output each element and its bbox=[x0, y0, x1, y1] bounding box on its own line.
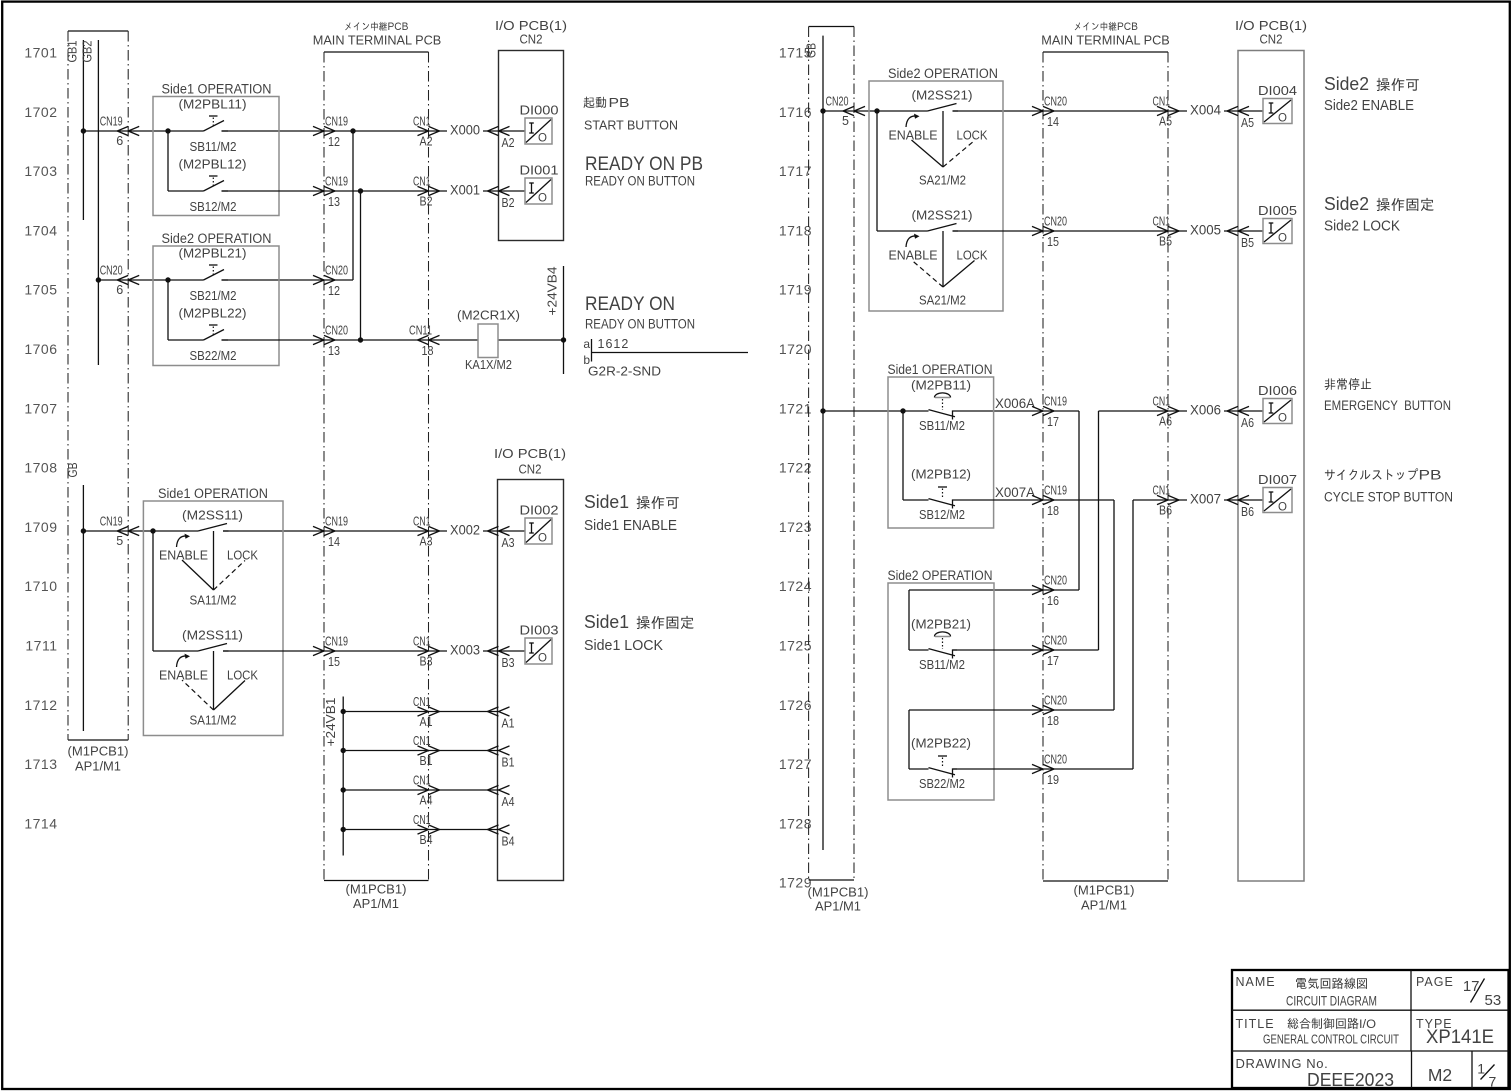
svg-text:LOCK: LOCK bbox=[227, 549, 259, 563]
connector CN20 pin 6 bbox=[100, 264, 140, 298]
svg-text:CN1: CN1 bbox=[1153, 395, 1171, 409]
relay coil M2CR1X KA1X/M2 bbox=[457, 308, 520, 373]
svg-text:B5: B5 bbox=[1159, 235, 1172, 249]
svg-text:1702: 1702 bbox=[24, 104, 57, 120]
svg-text:(M2SS11): (M2SS11) bbox=[182, 508, 243, 523]
svg-text:12: 12 bbox=[328, 135, 340, 149]
connector CN20 pin 16 bbox=[1032, 574, 1067, 609]
svg-text:1722: 1722 bbox=[779, 460, 812, 476]
push-button SB12/M2 (M2PB12) bbox=[911, 467, 971, 523]
svg-text:CN20: CN20 bbox=[1044, 634, 1067, 648]
svg-text:B1: B1 bbox=[502, 756, 515, 770]
svg-text:CN1: CN1 bbox=[1153, 484, 1171, 498]
svg-text:SB21/M2: SB21/M2 bbox=[190, 288, 237, 303]
svg-text:LOCK: LOCK bbox=[227, 669, 259, 683]
label side2 enable bbox=[1324, 74, 1419, 114]
power rail +24VB1 bbox=[324, 697, 346, 856]
svg-text:A4: A4 bbox=[502, 795, 515, 809]
connector CN2 pin A4 bbox=[488, 785, 515, 809]
svg-text:1725: 1725 bbox=[779, 638, 812, 654]
svg-text:+24VB1: +24VB1 bbox=[324, 697, 338, 746]
svg-text:TITLE: TITLE bbox=[1236, 1017, 1275, 1031]
connector CN20 pin 5 bbox=[826, 95, 866, 129]
connector CN19 pin 17 bbox=[1032, 395, 1067, 430]
node X004 bbox=[1187, 101, 1224, 118]
connector CN1 pin B2 bbox=[413, 175, 440, 209]
svg-text:B5: B5 bbox=[1241, 236, 1254, 250]
PCB box I/O PCB(1) CN2 lower left bbox=[494, 446, 566, 881]
svg-text:A6: A6 bbox=[1159, 415, 1172, 429]
input DI005 I/O cell bbox=[1258, 203, 1297, 245]
svg-text:Side2 OPERATION: Side2 OPERATION bbox=[888, 66, 998, 81]
svg-text:CN1: CN1 bbox=[413, 635, 431, 649]
svg-text:Side1 OPERATION: Side1 OPERATION bbox=[888, 362, 993, 377]
svg-text:CN19: CN19 bbox=[100, 115, 123, 129]
wire row 1702 start circuit bbox=[83, 128, 525, 280]
wire row 1725 side2 emergency bbox=[909, 649, 1099, 651]
svg-text:CN19: CN19 bbox=[1044, 484, 1067, 498]
svg-text:O: O bbox=[1278, 113, 1287, 125]
svg-text:A3: A3 bbox=[420, 535, 433, 549]
svg-text:READY ON BUTTON: READY ON BUTTON bbox=[585, 317, 695, 332]
svg-text:X001: X001 bbox=[450, 183, 480, 198]
svg-text:(M1PCB1): (M1PCB1) bbox=[346, 882, 407, 897]
svg-text:7: 7 bbox=[1489, 1074, 1497, 1090]
svg-text:CN19: CN19 bbox=[325, 115, 348, 129]
node X001 bbox=[447, 181, 483, 198]
svg-text:(M1PCB1): (M1PCB1) bbox=[68, 744, 129, 759]
svg-text:CN2: CN2 bbox=[520, 32, 543, 47]
svg-text:6: 6 bbox=[116, 283, 123, 297]
svg-text:A1: A1 bbox=[420, 715, 433, 729]
svg-text:18: 18 bbox=[1047, 504, 1059, 518]
wire row 1727 side2 cycle stop bbox=[909, 768, 1133, 770]
wire +24VB1 feed B1 bbox=[343, 750, 498, 752]
node X005 bbox=[1187, 221, 1224, 238]
connector CN2 pin A1 bbox=[488, 707, 515, 731]
operation box Side1 OPERATION upper bbox=[153, 82, 279, 216]
svg-text:SA21/M2: SA21/M2 bbox=[919, 173, 966, 188]
svg-text:GB: GB bbox=[66, 463, 80, 478]
svg-text:1705: 1705 bbox=[24, 282, 57, 298]
input DI001 I/O cell bbox=[520, 163, 559, 205]
operation box Side2 OPERATION right lower bbox=[888, 568, 995, 800]
svg-text:5: 5 bbox=[116, 534, 123, 548]
svg-text:Side2: Side2 bbox=[1324, 74, 1369, 94]
connector CN2 pin B6 bbox=[1227, 495, 1254, 519]
push-button SB21/M2 (M2PBL21) bbox=[179, 246, 247, 304]
selector switch SA21/M2 (M2SS21) lock bbox=[889, 208, 989, 308]
svg-text:CN19: CN19 bbox=[325, 515, 348, 529]
svg-text:G2R-2-SND: G2R-2-SND bbox=[588, 364, 661, 379]
svg-text:Side1 OPERATION: Side1 OPERATION bbox=[158, 486, 268, 501]
svg-text:CN20: CN20 bbox=[325, 264, 348, 278]
svg-text:CN1: CN1 bbox=[413, 515, 431, 529]
svg-text:CN1: CN1 bbox=[1153, 95, 1171, 109]
svg-text:Side1 ENABLE: Side1 ENABLE bbox=[584, 517, 677, 534]
input DI002 I/O cell bbox=[520, 503, 559, 545]
svg-text:CN1: CN1 bbox=[413, 813, 431, 827]
svg-text:B2: B2 bbox=[420, 195, 433, 209]
svg-text:CN20: CN20 bbox=[325, 324, 348, 338]
svg-text:O: O bbox=[538, 533, 547, 545]
svg-text:ENABLE: ENABLE bbox=[889, 129, 938, 143]
svg-text:CN1: CN1 bbox=[1153, 215, 1171, 229]
power rail +24VB4 bbox=[546, 266, 567, 374]
PCB boundary (M1PCB1) AP1/M1 left bbox=[68, 31, 129, 774]
wire row 1703 ready-on pb bbox=[168, 188, 525, 340]
svg-text:I/O: I/O bbox=[1359, 1017, 1376, 1031]
svg-text:(M2PBL22): (M2PBL22) bbox=[179, 306, 247, 321]
svg-text:AP1/M1: AP1/M1 bbox=[75, 759, 121, 774]
svg-text:1721: 1721 bbox=[779, 400, 812, 416]
PCB box I/O PCB(1) CN2 upper left bbox=[495, 18, 567, 241]
operation box Side2 OPERATION left bbox=[153, 231, 279, 366]
connector CN19 pin 15 bbox=[313, 635, 348, 670]
selector switch SA11/M2 (M2SS11) enable bbox=[159, 508, 259, 608]
svg-text:ENABLE: ENABLE bbox=[159, 669, 208, 683]
svg-text:A6: A6 bbox=[1241, 416, 1254, 430]
svg-text:READY ON: READY ON bbox=[585, 293, 675, 315]
svg-text:A5: A5 bbox=[1159, 115, 1172, 129]
svg-text:CYCLE STOP BUTTON: CYCLE STOP BUTTON bbox=[1324, 490, 1453, 505]
wire row 1726 link bbox=[909, 710, 1114, 769]
svg-text:1713: 1713 bbox=[24, 756, 57, 772]
svg-text:SB12/M2: SB12/M2 bbox=[190, 199, 237, 214]
svg-text:O: O bbox=[1278, 413, 1287, 425]
svg-text:16: 16 bbox=[1047, 594, 1059, 608]
svg-text:EMERGENCY BUTTON: EMERGENCY BUTTON bbox=[1324, 398, 1451, 413]
svg-text:O: O bbox=[538, 133, 547, 145]
svg-text:13: 13 bbox=[328, 195, 340, 209]
svg-text:ENABLE: ENABLE bbox=[159, 549, 208, 563]
input DI003 I/O cell bbox=[520, 623, 559, 665]
cross-reference a/b 1612 G2R-2-SND bbox=[583, 337, 748, 379]
svg-text:PB: PB bbox=[1419, 468, 1442, 483]
svg-text:1727: 1727 bbox=[779, 756, 812, 772]
svg-text:A5: A5 bbox=[1241, 116, 1254, 130]
svg-text:X007A: X007A bbox=[995, 485, 1035, 500]
connector CN2 pin A3 bbox=[488, 526, 515, 550]
connector CN20 pin 12 bbox=[313, 264, 348, 299]
svg-text:X000: X000 bbox=[450, 123, 480, 138]
connector CN20 pin 17 bbox=[1032, 634, 1067, 669]
svg-text:1703: 1703 bbox=[24, 163, 57, 179]
svg-text:Side1: Side1 bbox=[584, 612, 629, 632]
connector CN20 pin 18 bbox=[1032, 694, 1067, 729]
connector CN1 pin B6 bbox=[1153, 484, 1180, 518]
connector CN1 pin A3 bbox=[413, 515, 440, 549]
wire +24VB1 feed A1 bbox=[343, 711, 498, 713]
svg-text:SB22/M2: SB22/M2 bbox=[190, 348, 237, 363]
svg-text:CN20: CN20 bbox=[1044, 95, 1067, 109]
connector CN1 pin B5 bbox=[1153, 215, 1180, 249]
svg-text:B1: B1 bbox=[420, 754, 433, 768]
connector CN19 pin 12 bbox=[313, 115, 348, 150]
connector CN1 pin B3 bbox=[413, 635, 440, 669]
svg-text:SA11/M2: SA11/M2 bbox=[190, 593, 237, 608]
svg-text:1723: 1723 bbox=[779, 519, 812, 535]
svg-text:I/O PCB(1): I/O PCB(1) bbox=[494, 446, 566, 461]
connector CN1 pin B1 bbox=[413, 734, 440, 768]
connector CN2 pin B3 bbox=[488, 646, 515, 670]
connector CN2 pin A5 bbox=[1227, 106, 1254, 130]
bus GB right bbox=[805, 36, 826, 850]
label start button bbox=[584, 96, 679, 133]
wire row 1711 side1 lock bbox=[153, 650, 525, 652]
connector CN19 pin 18 bbox=[1032, 484, 1067, 519]
svg-text:1612: 1612 bbox=[598, 337, 630, 351]
svg-text:(M2SS21): (M2SS21) bbox=[912, 88, 973, 103]
wire +24VB1 feed A4 bbox=[343, 789, 498, 791]
svg-text:1711: 1711 bbox=[25, 638, 57, 654]
svg-text:Side2 OPERATION: Side2 OPERATION bbox=[888, 568, 993, 583]
svg-text:14: 14 bbox=[1047, 115, 1059, 129]
svg-text:DRAWING No.: DRAWING No. bbox=[1236, 1056, 1329, 1071]
svg-text:GB: GB bbox=[805, 43, 819, 58]
svg-text:1704: 1704 bbox=[24, 222, 57, 238]
svg-text:(M2CR1X): (M2CR1X) bbox=[457, 308, 520, 323]
svg-text:Side2 ENABLE: Side2 ENABLE bbox=[1324, 97, 1414, 114]
svg-text:1709: 1709 bbox=[24, 519, 57, 535]
label cycle stop button bbox=[1324, 468, 1453, 505]
svg-text:DI001: DI001 bbox=[520, 163, 559, 178]
push-button SB22/M2 (M2PB22) bbox=[911, 736, 971, 792]
svg-text:NAME: NAME bbox=[1236, 975, 1276, 989]
node X002 bbox=[447, 521, 483, 538]
svg-text:A2: A2 bbox=[502, 136, 515, 150]
connector CN1 pin B4 bbox=[413, 813, 440, 847]
svg-text:DI002: DI002 bbox=[520, 503, 559, 518]
push-button SB11/M2 (M2PB21) emergency side2 bbox=[911, 617, 971, 673]
svg-text:SB22/M2: SB22/M2 bbox=[919, 776, 965, 791]
svg-text:CN20: CN20 bbox=[100, 264, 123, 278]
label emergency button bbox=[1324, 378, 1451, 413]
connector CN19 pin 14 bbox=[313, 515, 348, 550]
svg-text:DI005: DI005 bbox=[1258, 203, 1297, 218]
push-button SB11/M2 (M2PB11) emergency bbox=[911, 378, 971, 434]
svg-text:(M2PB22): (M2PB22) bbox=[911, 736, 971, 751]
connector CN2 pin A6 bbox=[1227, 406, 1254, 430]
wire row 1721 emergency bbox=[823, 408, 1263, 650]
svg-text:1707: 1707 bbox=[24, 400, 57, 416]
svg-text:1716: 1716 bbox=[779, 104, 812, 120]
svg-text:1706: 1706 bbox=[24, 341, 57, 357]
svg-text:15: 15 bbox=[328, 655, 340, 669]
svg-text:DI000: DI000 bbox=[520, 103, 559, 118]
svg-text:14: 14 bbox=[328, 535, 340, 549]
svg-text:17: 17 bbox=[1047, 415, 1059, 429]
svg-text:READY ON BUTTON: READY ON BUTTON bbox=[585, 174, 695, 189]
svg-text:O: O bbox=[1278, 502, 1287, 514]
svg-text:LOCK: LOCK bbox=[957, 129, 989, 143]
svg-text:1720: 1720 bbox=[779, 341, 812, 357]
connector CN19 pin 13 bbox=[313, 175, 348, 210]
node X007 bbox=[1187, 491, 1224, 507]
svg-text:CN19: CN19 bbox=[1044, 395, 1067, 409]
svg-text:(M2PB21): (M2PB21) bbox=[911, 617, 971, 632]
svg-text:MAIN TERMINAL PCB: MAIN TERMINAL PCB bbox=[313, 33, 442, 48]
node X006 bbox=[1187, 402, 1224, 418]
bus GB2 bbox=[81, 40, 102, 365]
PCB boundary MAIN TERMINAL PCB right bbox=[1041, 21, 1170, 913]
svg-text:READY ON PB: READY ON PB bbox=[585, 153, 703, 175]
connector CN1 pin A1 bbox=[413, 695, 440, 729]
svg-text:AP1/M1: AP1/M1 bbox=[353, 896, 399, 911]
node X006A bbox=[995, 396, 1035, 411]
svg-text:DI003: DI003 bbox=[520, 623, 559, 638]
PCB boundary (M1PCB1) AP1/M1 right bbox=[808, 27, 869, 914]
connector CN2 pin B5 bbox=[1227, 226, 1254, 250]
connector CN1 pin A2 bbox=[413, 115, 440, 149]
svg-text:CN20: CN20 bbox=[1044, 753, 1067, 767]
svg-text:PCB: PCB bbox=[1117, 21, 1138, 33]
svg-text:SA11/M2: SA11/M2 bbox=[190, 713, 237, 728]
svg-text:Side1: Side1 bbox=[584, 492, 629, 512]
svg-text:(M2SS11): (M2SS11) bbox=[182, 628, 243, 643]
label side2 lock bbox=[1324, 194, 1434, 235]
svg-text:X004: X004 bbox=[1190, 103, 1221, 118]
svg-text:CN20: CN20 bbox=[1044, 574, 1067, 588]
svg-text:O: O bbox=[538, 653, 547, 665]
svg-text:Side2 LOCK: Side2 LOCK bbox=[1324, 218, 1400, 235]
svg-text:SB11/M2: SB11/M2 bbox=[190, 139, 237, 154]
svg-text:15: 15 bbox=[1047, 235, 1059, 249]
wire row 1722 cycle stop bbox=[903, 500, 1263, 769]
svg-text:CN20: CN20 bbox=[826, 95, 849, 109]
svg-text:GB2: GB2 bbox=[81, 40, 95, 62]
wire row 1709 side1 enable bbox=[83, 528, 525, 651]
connector CN20 pin 19 bbox=[1032, 753, 1067, 788]
bus GB1 bbox=[65, 40, 86, 220]
svg-text:DI007: DI007 bbox=[1258, 472, 1297, 487]
svg-text:B4: B4 bbox=[420, 833, 433, 847]
svg-text:CN1: CN1 bbox=[413, 734, 431, 748]
svg-text:X003: X003 bbox=[450, 643, 480, 658]
svg-text:GENERAL CONTROL CIRCUIT: GENERAL CONTROL CIRCUIT bbox=[1263, 1033, 1399, 1047]
connector CN1 pin A6 bbox=[1153, 395, 1180, 429]
svg-text:5: 5 bbox=[842, 114, 849, 128]
svg-text:AP1/M1: AP1/M1 bbox=[1081, 898, 1127, 913]
input DI006 I/O cell bbox=[1258, 383, 1297, 425]
connector CN20 pin 15 bbox=[1032, 215, 1067, 250]
svg-text:XP141E: XP141E bbox=[1426, 1027, 1494, 1048]
svg-text:X002: X002 bbox=[450, 523, 480, 538]
connector CN1 pin A4 bbox=[413, 774, 440, 808]
svg-text:ENABLE: ENABLE bbox=[889, 249, 938, 263]
svg-text:CN2: CN2 bbox=[519, 462, 542, 477]
selector switch SA21/M2 (M2SS21) enable bbox=[889, 88, 989, 188]
svg-text:PB: PB bbox=[609, 96, 630, 110]
svg-text:(M1PCB1): (M1PCB1) bbox=[1074, 883, 1135, 898]
input DI007 I/O cell bbox=[1258, 472, 1297, 514]
svg-text:AP1/M1: AP1/M1 bbox=[815, 899, 861, 914]
svg-text:a: a bbox=[583, 337, 590, 351]
svg-text:(M2PBL21): (M2PBL21) bbox=[179, 246, 247, 261]
svg-text:DI006: DI006 bbox=[1258, 383, 1297, 398]
svg-text:Side2: Side2 bbox=[1324, 194, 1369, 214]
svg-text:1726: 1726 bbox=[779, 697, 812, 713]
svg-text:DEEE2023: DEEE2023 bbox=[1307, 1070, 1394, 1090]
connector CN19 pin 6 bbox=[100, 115, 140, 149]
svg-text:1710: 1710 bbox=[24, 578, 57, 594]
svg-text:KA1X/M2: KA1X/M2 bbox=[465, 357, 512, 372]
svg-text:CIRCUIT DIAGRAM: CIRCUIT DIAGRAM bbox=[1286, 993, 1377, 1009]
svg-text:Side2 OPERATION: Side2 OPERATION bbox=[162, 231, 272, 246]
svg-text:1718: 1718 bbox=[779, 222, 812, 238]
connector CN20 pin 14 bbox=[1032, 95, 1067, 130]
svg-text:1717: 1717 bbox=[779, 163, 812, 179]
svg-text:X005: X005 bbox=[1190, 223, 1221, 238]
svg-text:1714: 1714 bbox=[24, 815, 57, 831]
svg-text:19: 19 bbox=[1047, 773, 1059, 787]
svg-text:X006: X006 bbox=[1190, 403, 1221, 418]
connector CN20 pin 13 bbox=[313, 324, 348, 359]
svg-text:B4: B4 bbox=[502, 835, 515, 849]
svg-text:SB11/M2: SB11/M2 bbox=[919, 657, 965, 672]
svg-text:CN2: CN2 bbox=[1260, 32, 1283, 47]
svg-text:MAIN TERMINAL PCB: MAIN TERMINAL PCB bbox=[1041, 33, 1170, 48]
svg-text:17: 17 bbox=[1047, 654, 1059, 668]
PCB box I/O PCB(1) CN2 right bbox=[1235, 18, 1307, 881]
svg-text:A2: A2 bbox=[420, 135, 433, 149]
connector CN2 pin A2 bbox=[488, 126, 515, 150]
svg-text:1724: 1724 bbox=[779, 578, 812, 594]
wire row 1716 side2 enable bbox=[823, 108, 1263, 231]
svg-text:PAGE: PAGE bbox=[1416, 975, 1454, 989]
connector CN11 pin 18 bbox=[409, 324, 440, 359]
svg-text:DI004: DI004 bbox=[1258, 83, 1297, 98]
svg-text:CN19: CN19 bbox=[325, 175, 348, 189]
node X000 bbox=[447, 121, 483, 138]
svg-text:1: 1 bbox=[1477, 1061, 1485, 1077]
title block bbox=[1232, 970, 1509, 1090]
svg-text:CN19: CN19 bbox=[100, 515, 123, 529]
svg-text:+24VB4: +24VB4 bbox=[546, 266, 560, 315]
operation box Side2 OPERATION right upper bbox=[869, 66, 1003, 311]
push-button SB12/M2 (M2PBL12) bbox=[179, 157, 247, 215]
label ready on bbox=[585, 293, 695, 332]
svg-text:O: O bbox=[1278, 233, 1287, 245]
svg-text:CN20: CN20 bbox=[1044, 694, 1067, 708]
svg-text:X006A: X006A bbox=[995, 396, 1035, 411]
svg-text:CN1: CN1 bbox=[413, 175, 431, 189]
svg-text:SB11/M2: SB11/M2 bbox=[919, 418, 965, 433]
svg-text:1708: 1708 bbox=[24, 460, 57, 476]
connector CN2 pin B1 bbox=[488, 746, 515, 770]
wire row 1718 side2 lock bbox=[877, 230, 1263, 232]
svg-text:X007: X007 bbox=[1190, 492, 1221, 507]
connector CN2 pin B4 bbox=[488, 825, 515, 849]
bus GB left bbox=[66, 463, 86, 732]
svg-text:1701: 1701 bbox=[24, 45, 57, 61]
svg-text:12: 12 bbox=[328, 284, 340, 298]
svg-text:CN11: CN11 bbox=[409, 324, 432, 338]
svg-text:O: O bbox=[538, 193, 547, 205]
svg-text:B6: B6 bbox=[1159, 504, 1172, 518]
svg-text:53: 53 bbox=[1485, 992, 1502, 1009]
svg-text:CN20: CN20 bbox=[1044, 215, 1067, 229]
node X007A bbox=[995, 485, 1035, 500]
svg-text:B3: B3 bbox=[502, 656, 515, 670]
svg-text:A4: A4 bbox=[420, 794, 433, 808]
wire row 1706 ready-on relay bbox=[168, 337, 564, 342]
node X003 bbox=[447, 641, 483, 658]
svg-text:(M2PBL12): (M2PBL12) bbox=[179, 157, 247, 172]
svg-text:CN19: CN19 bbox=[325, 635, 348, 649]
selector switch SA11/M2 (M2SS11) lock bbox=[159, 628, 259, 728]
svg-text:SA21/M2: SA21/M2 bbox=[919, 293, 966, 308]
